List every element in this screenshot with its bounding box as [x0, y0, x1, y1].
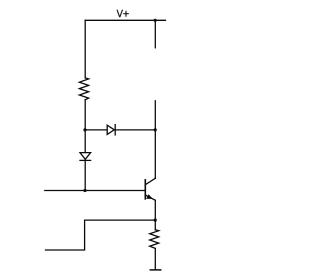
wire R2 to ground [154, 248, 156, 269]
diode D2 [80, 153, 91, 161]
wire D1 cathode to node B [115, 129, 155, 131]
net label V+ [117, 10, 129, 18]
node B junction [154, 128, 157, 131]
resistor R2 [150, 230, 159, 249]
base wire [45, 190, 146, 192]
wire node C to R2 [154, 220, 156, 230]
node A junction [83, 128, 86, 131]
diode D1 [107, 125, 115, 135]
wire rail left corner down to R1 [84, 20, 86, 78]
wire R1 to node A [84, 100, 86, 130]
junction on rail [154, 19, 157, 22]
transistor Q1 [145, 178, 155, 200]
power rail V+ wire [85, 19, 165, 21]
wire input step [46, 220, 156, 250]
wire emitter down to node C [154, 200, 156, 220]
wire node B vertical to collector [154, 101, 156, 179]
wire node A to D2 anode [84, 130, 86, 153]
resistor R1 [79, 78, 88, 100]
node C junction [154, 219, 157, 222]
ground [150, 269, 160, 271]
wire rail stub down [154, 20, 156, 48]
junction D2 base wire [83, 189, 86, 192]
wire D2 cathode to base wire [84, 160, 86, 190]
wire node A to D1 anode [85, 129, 107, 131]
